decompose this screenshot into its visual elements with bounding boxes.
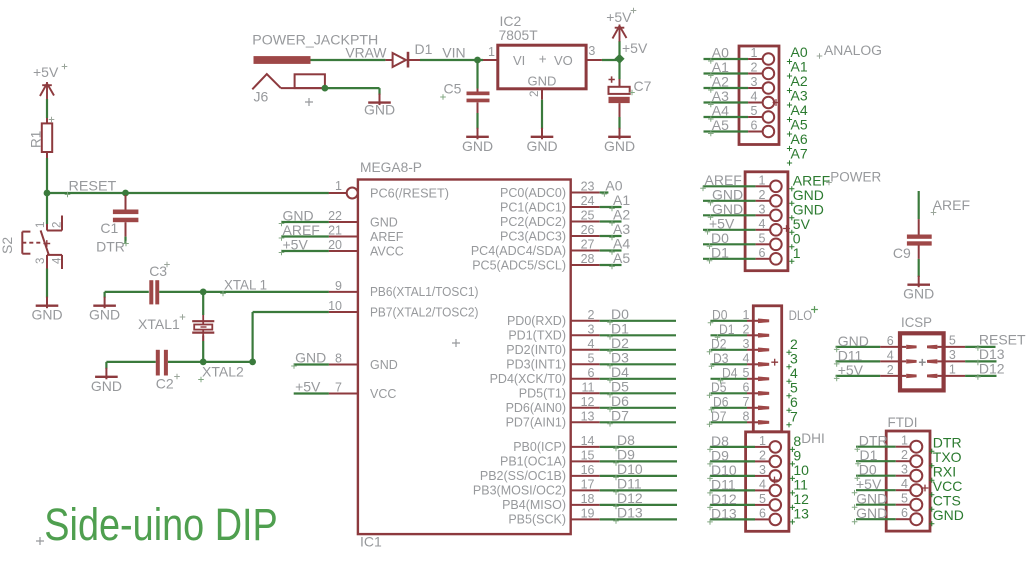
svg-text:2: 2 — [759, 448, 766, 462]
svg-text:AVCC: AVCC — [370, 244, 404, 258]
svg-text:7: 7 — [743, 395, 750, 409]
svg-text:2: 2 — [759, 188, 766, 202]
svg-text:+5V: +5V — [33, 64, 59, 80]
svg-text:AREF: AREF — [370, 230, 404, 244]
svg-text:D1: D1 — [711, 244, 729, 260]
svg-text:2: 2 — [52, 222, 64, 228]
svg-text:8: 8 — [743, 409, 750, 423]
svg-text:PB3(MOSI/OC2): PB3(MOSI/OC2) — [473, 484, 566, 498]
svg-text:18: 18 — [581, 492, 595, 506]
svg-text:+5V: +5V — [283, 237, 309, 253]
svg-text:2: 2 — [529, 91, 541, 97]
svg-text:PB2(SS/OC1B): PB2(SS/OC1B) — [480, 469, 566, 483]
svg-text:3: 3 — [743, 337, 750, 351]
svg-text:C9: C9 — [893, 245, 911, 261]
svg-text:IC2: IC2 — [500, 13, 522, 29]
svg-text:A5: A5 — [613, 250, 630, 266]
svg-text:13: 13 — [793, 505, 809, 521]
svg-text:VI: VI — [513, 53, 525, 68]
svg-text:1: 1 — [743, 308, 750, 322]
svg-text:12: 12 — [581, 395, 595, 409]
svg-text:9: 9 — [335, 279, 342, 293]
svg-text:27: 27 — [581, 238, 595, 252]
svg-text:GND: GND — [604, 138, 635, 154]
svg-text:2: 2 — [887, 363, 894, 377]
svg-text:1: 1 — [751, 46, 758, 60]
svg-text:3: 3 — [35, 258, 47, 264]
svg-text:DTR: DTR — [96, 238, 125, 254]
svg-text:VIN: VIN — [442, 45, 465, 61]
svg-text:1: 1 — [35, 222, 47, 228]
svg-text:28: 28 — [581, 252, 595, 266]
svg-text:4: 4 — [901, 477, 908, 491]
svg-text:14: 14 — [581, 434, 595, 448]
svg-text:VCC: VCC — [370, 387, 396, 401]
svg-text:ANALOG: ANALOG — [824, 43, 882, 58]
svg-text:4: 4 — [759, 217, 766, 231]
svg-text:4: 4 — [52, 257, 64, 264]
svg-text:GND: GND — [903, 286, 934, 302]
svg-text:J6: J6 — [254, 88, 269, 104]
svg-text:C7: C7 — [634, 78, 652, 94]
svg-text:3: 3 — [759, 202, 766, 216]
svg-text:XTAL2: XTAL2 — [202, 364, 244, 380]
svg-text:3: 3 — [588, 44, 595, 58]
svg-text:PB4(MISO): PB4(MISO) — [502, 498, 566, 512]
svg-text:4: 4 — [588, 337, 595, 351]
svg-text:XTAL1: XTAL1 — [138, 316, 180, 332]
svg-text:1: 1 — [793, 245, 801, 261]
svg-text:5: 5 — [751, 104, 758, 118]
svg-text:20: 20 — [328, 238, 342, 252]
svg-text:PC3(ADC3): PC3(ADC3) — [500, 229, 566, 243]
svg-text:DLO: DLO — [789, 308, 813, 323]
svg-text:PC1(ADC1): PC1(ADC1) — [500, 200, 566, 214]
svg-text:POWER: POWER — [830, 170, 881, 185]
svg-text:4: 4 — [751, 90, 758, 104]
svg-text:PD1(TXD): PD1(TXD) — [508, 329, 566, 343]
svg-text:R1: R1 — [29, 131, 44, 148]
svg-text:VO: VO — [554, 53, 573, 68]
svg-text:A5: A5 — [712, 117, 729, 133]
svg-text:PB5(SCK): PB5(SCK) — [508, 513, 566, 527]
svg-text:GND: GND — [526, 138, 557, 154]
svg-text:19: 19 — [581, 506, 595, 520]
svg-text:+5V: +5V — [838, 362, 864, 378]
svg-text:PD5(T1): PD5(T1) — [519, 387, 566, 401]
svg-text:+5V: +5V — [606, 9, 632, 25]
svg-text:FTDI: FTDI — [888, 415, 918, 430]
svg-text:5: 5 — [743, 366, 750, 380]
svg-text:PB0(ICP): PB0(ICP) — [513, 440, 566, 454]
svg-text:ICSP: ICSP — [901, 315, 932, 330]
svg-text:D13: D13 — [711, 505, 737, 521]
svg-text:2: 2 — [901, 448, 908, 462]
svg-text:2: 2 — [588, 308, 595, 322]
svg-text:GND: GND — [856, 505, 887, 521]
svg-text:PD0(RXD): PD0(RXD) — [507, 314, 566, 328]
svg-text:+5V: +5V — [295, 379, 321, 395]
svg-text:MEGA8-P: MEGA8-P — [360, 160, 422, 175]
svg-text:XTAL 1: XTAL 1 — [224, 278, 267, 293]
svg-text:6: 6 — [759, 506, 766, 520]
svg-text:C3: C3 — [149, 263, 167, 279]
svg-text:PD7(AIN1): PD7(AIN1) — [506, 416, 566, 430]
svg-text:GND: GND — [295, 350, 326, 366]
svg-text:3: 3 — [751, 75, 758, 89]
svg-text:3: 3 — [759, 463, 766, 477]
svg-text:8: 8 — [335, 352, 342, 366]
svg-text:A7: A7 — [791, 146, 808, 162]
svg-text:2: 2 — [743, 322, 750, 336]
svg-text:PD2(INT0): PD2(INT0) — [506, 343, 566, 357]
svg-text:1: 1 — [759, 434, 766, 448]
svg-text:PC2(ADC2): PC2(ADC2) — [500, 215, 566, 229]
svg-text:GND: GND — [31, 307, 62, 323]
svg-text:D1: D1 — [415, 41, 433, 57]
svg-text:23: 23 — [581, 180, 595, 194]
svg-text:PD6(AIN0): PD6(AIN0) — [506, 401, 566, 415]
svg-text:6: 6 — [588, 366, 595, 380]
svg-text:7: 7 — [335, 381, 342, 395]
svg-text:GND: GND — [89, 307, 120, 323]
svg-text:22: 22 — [328, 209, 342, 223]
svg-text:5: 5 — [901, 492, 908, 506]
svg-text:6: 6 — [759, 246, 766, 260]
svg-text:GND: GND — [370, 358, 398, 372]
svg-text:25: 25 — [581, 209, 595, 223]
svg-text:1: 1 — [335, 179, 342, 193]
svg-text:15: 15 — [581, 448, 595, 462]
svg-text:3: 3 — [901, 463, 908, 477]
svg-text:C2: C2 — [156, 375, 174, 391]
svg-text:6: 6 — [751, 119, 758, 133]
svg-text:+5V: +5V — [622, 40, 648, 56]
svg-text:GND: GND — [370, 215, 398, 229]
svg-text:PC4(ADC4/SDA): PC4(ADC4/SDA) — [471, 244, 566, 258]
svg-text:26: 26 — [581, 223, 595, 237]
svg-text:5: 5 — [759, 231, 766, 245]
svg-text:1: 1 — [949, 362, 956, 376]
svg-text:D13: D13 — [617, 504, 643, 520]
svg-text:PD4(XCK/T0): PD4(XCK/T0) — [490, 372, 566, 386]
svg-text:AREF: AREF — [933, 197, 970, 213]
svg-text:1: 1 — [901, 434, 908, 448]
svg-text:13: 13 — [581, 409, 595, 423]
svg-text:GND: GND — [364, 102, 395, 118]
svg-text:5: 5 — [759, 492, 766, 506]
svg-text:21: 21 — [328, 224, 342, 238]
svg-text:11: 11 — [582, 380, 595, 394]
svg-text:PC0(ADC0): PC0(ADC0) — [500, 186, 566, 200]
svg-text:VRAW: VRAW — [345, 46, 386, 61]
svg-text:4: 4 — [759, 477, 766, 491]
svg-text:17: 17 — [581, 477, 595, 491]
svg-text:2: 2 — [751, 61, 758, 75]
svg-text:PC5(ADC5/SCL): PC5(ADC5/SCL) — [472, 258, 566, 272]
svg-text:RESET: RESET — [69, 179, 117, 194]
svg-text:C5: C5 — [444, 81, 462, 97]
svg-text:GND: GND — [91, 378, 122, 394]
svg-text:5: 5 — [588, 351, 595, 365]
svg-text:Side-uino DIP: Side-uino DIP — [44, 499, 278, 550]
svg-text:PB6(XTAL1/TOSC1): PB6(XTAL1/TOSC1) — [370, 285, 479, 299]
svg-text:D7: D7 — [711, 408, 727, 424]
svg-text:+: + — [539, 52, 547, 67]
svg-text:6: 6 — [887, 334, 894, 348]
svg-text:GND: GND — [462, 138, 493, 154]
svg-text:6: 6 — [743, 380, 750, 394]
svg-text:DHI: DHI — [801, 431, 825, 446]
svg-text:S2: S2 — [0, 237, 15, 254]
svg-text:5: 5 — [949, 333, 956, 347]
svg-text:4: 4 — [887, 348, 894, 362]
svg-text:10: 10 — [328, 299, 342, 313]
svg-text:D12: D12 — [979, 360, 1005, 376]
svg-text:7: 7 — [790, 408, 798, 424]
svg-text:GND: GND — [933, 507, 964, 523]
svg-text:6: 6 — [901, 506, 908, 520]
svg-text:GND: GND — [528, 73, 557, 88]
svg-text:IC1: IC1 — [360, 534, 382, 550]
svg-text:4: 4 — [743, 351, 750, 365]
svg-text:16: 16 — [581, 463, 595, 477]
svg-text:PB1(OC1A): PB1(OC1A) — [500, 455, 566, 469]
svg-text:PD3(INT1): PD3(INT1) — [506, 358, 566, 372]
svg-text:3: 3 — [949, 348, 956, 362]
svg-text:PC6(/RESET): PC6(/RESET) — [370, 186, 449, 200]
svg-text:D7: D7 — [611, 407, 629, 423]
svg-text:1: 1 — [488, 45, 495, 59]
svg-text:24: 24 — [581, 194, 595, 208]
svg-text:3: 3 — [588, 322, 595, 336]
svg-text:PB7(XTAL2/TOSC2): PB7(XTAL2/TOSC2) — [370, 305, 479, 319]
svg-text:1: 1 — [759, 173, 766, 187]
svg-text:7805T: 7805T — [499, 28, 538, 43]
svg-text:C1: C1 — [100, 220, 118, 236]
